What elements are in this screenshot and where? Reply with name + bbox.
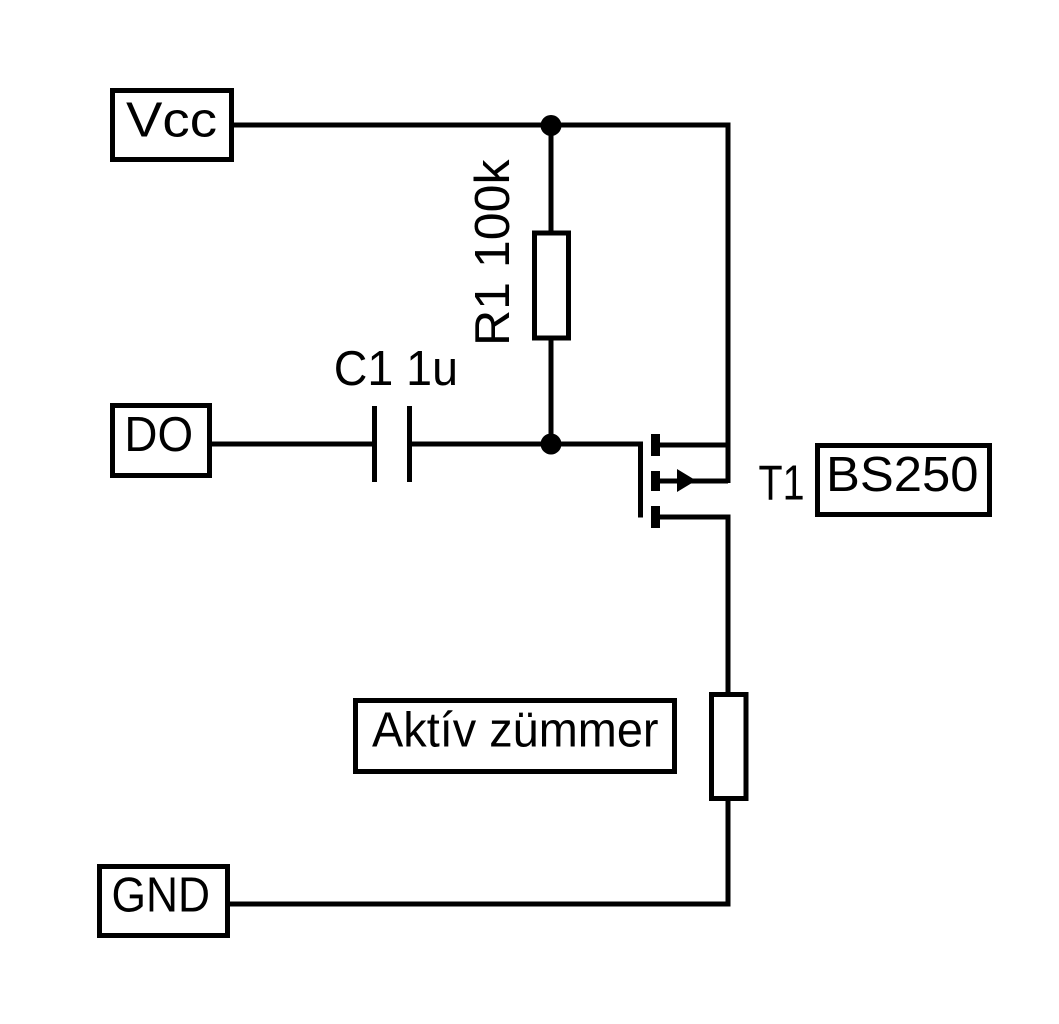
junction node gate row: [541, 434, 562, 455]
resistor R1 body: [535, 233, 569, 338]
wire R1 top: [549, 125, 554, 235]
svg-text:GND: GND: [112, 869, 211, 923]
svg-text:R1 100k: R1 100k: [466, 159, 520, 346]
wire Vcc rail to drain rail (top, turns down at right): [234, 125, 728, 483]
capacitor C1 right plate: [407, 406, 412, 482]
transistor T1 gate bar: [638, 442, 643, 518]
svg-text:Vcc: Vcc: [126, 94, 217, 148]
buzzer name box "Aktív zümmer": [356, 701, 675, 772]
transistor T1 channel segment bottom: [651, 506, 660, 528]
transistor T1 source lead, wire down to buzzer: [658, 517, 728, 694]
wire DO to C1: [211, 442, 377, 447]
transistor T1 body lead: [658, 479, 728, 484]
transistor T1 drain lead: [658, 443, 728, 448]
transistor T1 channel segment middle: [651, 471, 660, 491]
wire GND rail (from GND box, turns up at right to buzzer): [230, 799, 728, 904]
svg-text:BS250: BS250: [826, 448, 979, 502]
Vcc box: [113, 91, 232, 160]
wire C1 to gate: [408, 442, 643, 447]
GND box: [100, 867, 228, 936]
svg-text:C1 1u: C1 1u: [334, 342, 458, 396]
svg-text:DO: DO: [124, 408, 193, 462]
transistor T1 body diode arrow: [677, 469, 696, 492]
transistor T1 channel segment top: [651, 434, 660, 456]
junction node Vcc/R1: [541, 115, 562, 136]
capacitor C1 left plate: [372, 406, 377, 482]
BS250 box: [818, 446, 990, 515]
DO box: [113, 406, 210, 476]
buzzer body: [712, 695, 747, 799]
svg-text:Aktív zümmer: Aktív zümmer: [372, 704, 659, 758]
svg-text:T1: T1: [759, 457, 805, 511]
wire R1 bottom: [549, 338, 554, 446]
